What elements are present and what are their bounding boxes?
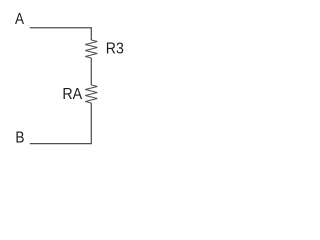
wire from RA to B — [30, 103, 92, 144]
resistor R3 — [85, 40, 97, 58]
svg-text:A: A — [15, 11, 24, 28]
svg-text:B: B — [15, 130, 24, 147]
svg-text:RA: RA — [62, 86, 82, 103]
resistor RA — [85, 85, 97, 103]
wire from A to top of R3 — [30, 28, 92, 40]
wire between R3 and RA — [90, 58, 92, 85]
svg-text:R3: R3 — [106, 40, 124, 57]
